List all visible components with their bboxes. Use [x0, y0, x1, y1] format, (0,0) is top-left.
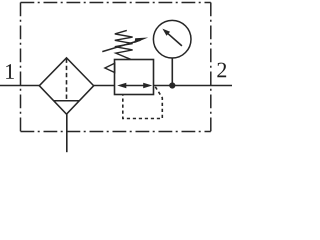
relief vent triangle on regulator left side — [105, 63, 115, 72]
pilot control line (dashed) — [123, 87, 163, 119]
water separator baffle line — [54, 100, 80, 102]
regulator body — [115, 60, 154, 95]
regulator flow path (double-headed arrow) — [117, 83, 152, 89]
filter element (vertical dashed line) — [66, 59, 68, 101]
adjustability arrow through spring — [102, 38, 148, 52]
gauge stem wire — [171, 58, 173, 86]
enclosure border (dash-dot assembly frame) — [21, 3, 211, 132]
wire: filter outlet to regulator — [94, 85, 115, 87]
wire: inlet line from port 1 to filter — [0, 85, 39, 87]
junction node (dot) — [169, 82, 175, 88]
pressure gauge body — [153, 20, 191, 58]
adjustment spring (zigzag) — [115, 30, 133, 59]
filter body (diamond) — [39, 58, 93, 114]
wire: regulator outlet to port 2 — [154, 85, 233, 87]
port label 1 — [6, 64, 14, 79]
port label 2 — [217, 63, 226, 78]
wire: condensate drain — [66, 114, 68, 153]
gauge needle — [162, 29, 182, 46]
